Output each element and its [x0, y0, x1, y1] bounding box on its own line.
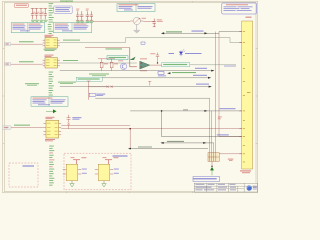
net labels bus column segment A: [48, 3, 54, 34]
diode D1: [169, 49, 202, 56]
wire port P1 to U2: [11, 43, 43, 45]
wire port P2 to U3: [11, 63, 43, 65]
component K1 small blue part: [141, 42, 145, 44]
wire L1 to bus: [190, 64, 236, 66]
transistor Q3: [118, 60, 127, 69]
resistor network RC1: [87, 81, 107, 100]
title block: [194, 183, 257, 192]
connector J2: [239, 17, 252, 174]
net text GT1: [25, 83, 39, 85]
net label on U2 output: [63, 40, 80, 41]
dashed box D2: [64, 153, 131, 190]
note box N3: [222, 3, 257, 14]
transistor Q2: [95, 157, 119, 187]
capacitor C8: [90, 11, 94, 23]
wire U4 to connector: [61, 128, 242, 130]
net label P3: [14, 125, 30, 126]
net label lower: [106, 48, 123, 49]
pin number text: [218, 117, 222, 120]
wire net row Y142: [161, 141, 214, 144]
wire U4 upper right pin: [61, 125, 130, 127]
net label OSC1: [19, 41, 34, 42]
note box N2: [54, 6, 72, 13]
IC U4: [43, 117, 61, 141]
no-ERC cross X1: [107, 86, 113, 88]
net label OSC2: [19, 61, 34, 62]
wire net row Y110: [130, 108, 242, 112]
vertical wire from junction: [161, 111, 163, 137]
port P1: [5, 42, 11, 45]
dashed box D1: [9, 163, 38, 187]
logo: [247, 185, 257, 190]
test point TP1: [130, 57, 136, 60]
net labels bus column segment C: [49, 146, 54, 186]
table T2: [53, 23, 92, 33]
wire net row Y136: [162, 134, 242, 136]
capacitor C6: [80, 11, 84, 23]
wire debug net with arrows: [161, 31, 219, 35]
wire net row Y98: [95, 97, 209, 99]
net label box L3: [76, 77, 102, 81]
no-connect arrow with net text: [167, 72, 196, 74]
net label box L1: [162, 63, 190, 67]
wire RN1 bottom stub: [211, 161, 212, 167]
capacitor C5: [76, 9, 80, 24]
capacitor C7: [86, 9, 90, 24]
red text DNI: [228, 159, 234, 161]
crystal X2: [67, 115, 82, 129]
power arrow A1: [210, 167, 214, 176]
ground under trimpot: [134, 25, 141, 33]
trimpot RV1: [130, 17, 146, 24]
wire U3 to op-amp: [60, 62, 137, 64]
wire resistor tops: [98, 58, 115, 60]
net label box LB1: [193, 177, 220, 182]
net label box L2: [107, 56, 128, 60]
junction dot at V6 top: [129, 128, 131, 130]
wire caps to trimpot: [93, 20, 130, 22]
vertical bus wire V3: [209, 98, 211, 152]
net text R26 R27: [89, 74, 109, 77]
op-amp U5: [140, 58, 150, 71]
vertical bus wire V5: [213, 143, 215, 153]
capacitor C10: [150, 53, 159, 64]
long wire net row Y70: [60, 68, 215, 72]
capacitor C9: [153, 19, 163, 27]
arrow above U4: [46, 109, 57, 113]
wire port P3 to U4: [11, 127, 43, 129]
IC U2: [43, 35, 60, 51]
wire bend to connector pin 1: [219, 32, 242, 34]
capacitor C1: [31, 8, 36, 22]
resistor R1: [100, 59, 108, 71]
port P3: [3, 126, 11, 130]
note box N1: [15, 4, 28, 7]
table T3: [117, 4, 155, 12]
vertical bus wire V2: [219, 33, 242, 136]
wire RN1 to connector: [219, 153, 242, 155]
net labels bus column segment B: [49, 72, 54, 96]
capacitor C2: [35, 8, 40, 22]
vertical bus wire V4: [211, 111, 213, 153]
wire net row Y86: [60, 84, 212, 88]
net text GT2: [58, 82, 76, 84]
wire trimpot to C9: [143, 20, 154, 22]
vertical wire V6: [129, 129, 131, 149]
net label U3 out: [63, 60, 78, 61]
wire U2 lower pin: [85, 48, 137, 67]
capacitor C3: [39, 8, 44, 22]
resistor R2: [110, 59, 118, 71]
port P2: [5, 62, 11, 65]
capacitor C4: [43, 8, 47, 22]
vertical bus wire V1: [215, 32, 217, 153]
table T4: [31, 97, 68, 106]
IC U3: [43, 55, 60, 68]
table T1: [11, 23, 45, 33]
wire net row Y77: [102, 75, 211, 79]
power mark PM1: [148, 81, 151, 85]
transistor Q1: [63, 157, 87, 187]
resistor network RN1: [208, 153, 219, 162]
component K2 blue part: [158, 72, 166, 77]
wire op-amp plus input: [130, 48, 137, 67]
wire net row Y148: [128, 147, 208, 150]
net label at top border: [60, 1, 73, 2]
wire op-amp output: [150, 64, 162, 66]
wire U2 output row: [60, 38, 242, 43]
